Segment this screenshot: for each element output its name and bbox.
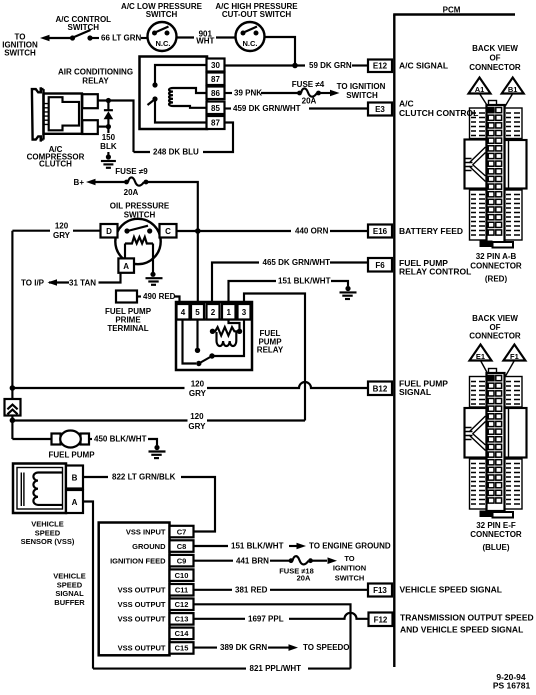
svg-text:OF: OF [489,53,500,62]
relay K2 switch blade [196,353,215,366]
vehicle speed signal buffer U1 box [99,523,170,656]
A/C compressor clutch terminal (top) [82,94,98,108]
svg-text:86: 86 [211,89,220,98]
svg-text:465 DK GRN/WHT: 465 DK GRN/WHT [263,258,331,267]
svg-text:150: 150 [102,133,116,142]
buffer pin C10 [170,569,194,581]
svg-text:VSS OUTPUT: VSS OUTPUT [118,600,166,609]
PCM pin E16 [368,225,392,238]
svg-text:CLUTCH: CLUTCH [39,160,72,169]
connector J2 32 PIN E-F body [465,369,527,512]
connector J2 32 PIN E-F header labels [469,314,521,341]
relay K2 pin 3 [238,304,251,320]
connector J1 32 PIN A-B body [465,101,527,244]
relay K1 terminal 87 [207,73,225,86]
svg-text:32 PIN A-B: 32 PIN A-B [476,252,517,261]
switch S2 A/C LOW PRESSURE SWITCH [121,2,203,51]
wire B+ feed with left arrow [86,179,125,186]
A/C compressor clutch body [44,94,82,134]
svg-text:C8: C8 [177,542,187,551]
wire fuel pump relay pin 3 down to 120 GRY [244,294,305,421]
left rail wire below connector [11,416,13,440]
wire 39 PNK from terminal 86 [225,89,298,98]
svg-text:WHT: WHT [196,37,214,46]
svg-text:BATTERY FEED: BATTERY FEED [399,226,463,236]
svg-text:A: A [72,498,78,507]
connector J2 label 32 PIN E-F CONNECTOR (BLUE) [470,521,522,552]
connector J1 pin B1 callout triangle [502,78,524,110]
svg-text:120: 120 [190,412,204,421]
svg-text:E3: E3 [375,105,385,114]
svg-text:3: 3 [242,308,247,317]
svg-text:248 DK BLU: 248 DK BLU [153,148,199,157]
svg-text:822 LT GRN/BLK: 822 LT GRN/BLK [112,473,176,482]
wire 150 BLK to ground [100,127,117,155]
svg-text:C7: C7 [177,527,187,536]
svg-text:381 RED: 381 RED [235,585,268,594]
wire 120 GRY fuel pump feed to relay pin 3 [12,412,305,431]
relay K1 terminal 86 [207,87,225,100]
svg-text:20A: 20A [302,97,317,106]
svg-text:459 DK GRN/WHT: 459 DK GRN/WHT [233,104,301,113]
wire 66 LT GRN [92,34,148,43]
svg-text:TO I/P: TO I/P [21,278,45,287]
svg-text:N.C.: N.C. [156,39,171,48]
node junction dot 59 DK GRN [292,63,298,69]
vehicle speed sensor terminal A [66,490,83,513]
net label TRANSMISSION OUTPUT SPEED AND VEHICLE SPEED SIGNAL [400,612,534,634]
connector J1 32 PIN A-B header labels [469,44,521,72]
svg-text:C: C [165,227,171,236]
wire fuse 9 to battery feed node [148,182,198,231]
relay K1 coil [169,88,207,108]
label A/C COMPRESSOR CLUTCH [27,145,85,169]
svg-text:A/C SIGNAL: A/C SIGNAL [399,60,448,70]
wire 120 GRY to PCM B12 (with hop) [12,380,368,399]
svg-text:BUFFER: BUFFER [54,598,85,607]
connector J1 pin A1 callout triangle [469,78,491,110]
net label FUEL PUMP SIGNAL [399,379,448,398]
oil pressure switch contacts [124,226,152,234]
relay K2 pin4 internal wire [183,320,197,364]
oil pressure switch S4 body [115,219,160,264]
node junction diode bottom [106,124,111,129]
svg-text:E12: E12 [373,61,388,70]
svg-text:OIL PRESSURE: OIL PRESSURE [110,201,170,210]
svg-text:A1: A1 [475,85,485,94]
svg-text:C10: C10 [175,571,189,580]
wire 381 RED from C11 to F13 [194,585,369,594]
relay K1 outline [140,57,208,130]
buffer pin C12 [118,599,194,611]
diode D1 [104,101,114,125]
svg-text:441 BRN: 441 BRN [236,556,269,565]
svg-text:F13: F13 [373,586,387,595]
svg-text:(RED): (RED) [485,275,508,284]
node junction battery feed [195,228,201,234]
wire clutch bottom terminal to diode [98,126,109,128]
fuse F4 FUSE #4 20A [292,80,325,106]
svg-text:TERMINAL: TERMINAL [107,324,148,333]
connector J2 foot [480,511,514,518]
A/C compressor clutch M1 pulley [32,87,44,141]
wire 31 TAN from terminal A [48,273,121,288]
svg-text:C15: C15 [175,644,189,653]
label VEHICLE SPEED SENSOR (VSS) [21,520,75,546]
svg-text:F1: F1 [510,352,519,361]
svg-text:CONNECTOR: CONNECTOR [469,63,521,72]
node TO IGNITION SWITCH (top left) [2,32,38,57]
relay K2 pin1 internal wire [229,320,240,330]
svg-text:B+: B+ [74,178,85,187]
svg-text:E16: E16 [373,227,388,236]
svg-text:VEHICLE SPEED SIGNAL: VEHICLE SPEED SIGNAL [400,584,503,594]
ground G3 (151 BLK/WHT) [340,286,357,299]
svg-text:450 BLK/WHT: 450 BLK/WHT [94,435,147,444]
svg-text:2: 2 [211,308,216,317]
svg-text:SWITCH: SWITCH [146,10,178,19]
svg-text:SIGNAL: SIGNAL [55,589,84,598]
relay K2 pin 2 [207,304,220,320]
svg-text:VSS INPUT: VSS INPUT [126,527,166,536]
net label A/C CLUTCH CONTROL [399,98,478,118]
wire 1697 PPL from C13 to F12 (with hop) [194,613,369,624]
svg-text:39 PNK: 39 PNK [234,89,262,98]
svg-text:E1: E1 [476,352,485,361]
svg-text:SENSOR (VSS): SENSOR (VSS) [21,537,75,546]
svg-text:151 BLK/WHT: 151 BLK/WHT [231,542,284,551]
svg-text:BACK VIEW: BACK VIEW [472,44,518,53]
svg-text:SPEED: SPEED [57,580,83,589]
PCM pin B12 [368,382,392,396]
svg-text:AND VEHICLE SPEED SIGNAL: AND VEHICLE SPEED SIGNAL [400,624,523,634]
wire 389 DK GRN from C15 to speedo [194,643,350,652]
svg-text:CLUTCH CONTROL: CLUTCH CONTROL [399,108,478,118]
svg-text:PS 16781: PS 16781 [493,681,531,691]
fuel pump M2 [12,431,89,448]
fuse F18 FUSE #18 20A [279,556,314,582]
wire to ignition switch (fuse 4) with right arrow [320,82,386,100]
svg-text:RELAY: RELAY [257,346,284,355]
svg-text:20A: 20A [124,188,139,197]
wire to ignition switch (fuse 18) with right arrow [312,554,366,582]
PCM pin E3 [368,103,392,116]
wire 821 PPL/WHT [93,664,351,673]
svg-text:120: 120 [191,380,205,389]
wire 459 DK GRN/WHT from terminal 85 to E3 [225,104,369,113]
relay K1 terminal 30 [207,59,225,72]
relay K2 pin 5 [191,304,204,320]
fuel pump prime terminal TB1 [116,291,137,303]
svg-text:TO IGNITION: TO IGNITION [337,82,386,91]
svg-text:VEHICLE: VEHICLE [53,572,86,581]
buffer pin C8 [132,540,193,552]
net label FUEL PUMP RELAY CONTROL [399,258,471,276]
svg-text:F12: F12 [374,615,388,624]
buffer pin C13 [118,613,194,625]
svg-text:85: 85 [211,104,220,113]
svg-text:GRY: GRY [53,231,71,240]
svg-text:TO: TO [344,554,354,563]
wire 248 DK BLU from clutch to relay terminal 87a [134,123,234,157]
relay K1 AIR CONDITIONING RELAY label [58,68,133,86]
ground G1 (150 BLK) [101,154,116,167]
svg-text:5: 5 [195,308,200,317]
relay K1 terminal 85 [207,102,225,115]
oil pressure switch S4 label [110,201,170,219]
wire 151 BLK/WHT from C8 to engine ground [194,542,391,551]
wire 151 BLK/WHT from relay pin 1 to ground [229,277,349,305]
svg-text:66 LT GRN: 66 LT GRN [101,34,142,43]
svg-text:SWITCH: SWITCH [335,573,365,582]
svg-text:B1: B1 [508,85,518,94]
switch S1 A/C CONTROL SWITCH [56,15,112,41]
svg-text:4: 4 [181,308,186,317]
svg-text:SWITCH: SWITCH [4,48,36,57]
wire 465 DK GRN/WHT from relay pin 2 to F6 [212,258,368,304]
svg-text:32 PIN E-F: 32 PIN E-F [476,521,516,530]
wire 901 WHT [177,29,236,45]
svg-text:440 ORN: 440 ORN [295,227,329,236]
oil pressure switch terminal C [160,224,177,238]
svg-text:CUT-OUT SWITCH: CUT-OUT SWITCH [222,10,292,19]
svg-text:SWITCH: SWITCH [68,23,100,32]
svg-text:821 PPL/WHT: 821 PPL/WHT [250,664,302,673]
wire from high pressure switch down to 59 DK GRN node [265,37,296,66]
wire to ignition switch with left arrow [40,35,71,42]
svg-text:VSS OUTPUT: VSS OUTPUT [118,615,166,624]
svg-text:87: 87 [211,75,220,84]
relay K1 internal switch contacts [148,65,207,123]
relay K2 pin 4 [177,304,190,320]
svg-text:CONNECTOR: CONNECTOR [469,332,521,341]
svg-text:SWITCH: SWITCH [346,91,378,100]
svg-text:A: A [123,262,129,271]
svg-text:RELAY CONTROL: RELAY CONTROL [399,266,471,276]
wire 440 ORN from terminal C to E16 [177,227,369,236]
buffer pin C9 [110,555,193,567]
label FUEL PUMP RELAY [257,329,284,355]
svg-text:FUSE ≠4: FUSE ≠4 [292,80,325,89]
svg-text:CONNECTOR: CONNECTOR [470,530,522,539]
relay K2 internal resistor [210,327,242,335]
connector J1 foot [480,241,514,248]
svg-text:GRY: GRY [189,389,207,398]
wire clutch top terminal to 248 DK BLU [98,101,134,153]
PCM pin F6 [368,258,392,272]
svg-text:1: 1 [226,308,231,317]
svg-text:FUSE ≠9: FUSE ≠9 [115,167,148,176]
svg-text:SPEED: SPEED [35,528,61,537]
connector J2 pin F1 callout triangle [503,345,525,378]
svg-text:A/C: A/C [399,98,414,108]
PCM pin E12 [368,60,392,73]
node junction fuel pump feed [10,418,16,424]
svg-text:RELAY: RELAY [82,77,109,86]
connector J1 label 32 PIN A-B CONNECTOR (RED) [470,252,522,284]
A/C compressor clutch coil bobbin [44,97,79,130]
svg-text:B: B [72,473,78,482]
buffer pin C15 [118,642,194,654]
wire battery feed node to fuel pump relay pin 5 [197,231,199,304]
svg-text:GROUND: GROUND [132,542,166,551]
svg-text:C14: C14 [175,629,190,638]
svg-text:389 DK GRN: 389 DK GRN [220,643,267,652]
svg-text:BLK: BLK [100,142,117,151]
svg-text:BACK VIEW: BACK VIEW [472,314,518,323]
svg-text:490 RED: 490 RED [143,292,176,301]
switch S3 A/C HIGH PRESSURE CUT-OUT SWITCH [215,2,298,51]
oil pressure switch terminal D [101,224,118,238]
svg-text:AIR CONDITIONING: AIR CONDITIONING [58,68,133,77]
oil pressure switch terminal A [118,258,134,272]
svg-text:FUEL PUMP: FUEL PUMP [48,451,95,460]
svg-text:GRY: GRY [188,422,206,431]
svg-text:N.C.: N.C. [243,39,258,48]
wire 450 BLK/WHT to ground [89,435,157,446]
relay K1 terminal 87a [207,116,225,129]
svg-text:TRANSMISSION OUTPUT SPEED: TRANSMISSION OUTPUT SPEED [400,612,534,622]
relay K2 pin5 internal wire [195,320,200,353]
svg-text:D: D [106,227,112,236]
node junction fuel pump signal tap [10,385,16,391]
wire C12 to 821 PPL/WHT junction [194,604,351,668]
wire 822 LT GRN/BLK from VSS B to buffer C7 [83,473,215,532]
relay K2 FUEL PUMP RELAY outline [176,302,252,370]
svg-text:151 BLK/WHT: 151 BLK/WHT [278,277,331,286]
svg-text:IGNITION: IGNITION [333,564,366,573]
connector J1 pins [488,108,501,236]
svg-text:TO ENGINE GROUND: TO ENGINE GROUND [309,542,391,551]
vehicle speed sensor terminal B [66,466,83,489]
wire 490 RED to relay pin 4 [137,292,180,304]
buffer pin C7 [126,526,194,538]
vehicle speed sensor B1 body [13,464,66,514]
PCM boundary line [393,15,515,668]
svg-text:SIGNAL: SIGNAL [399,387,431,397]
wire 120 GRY from terminal D to left rail [12,222,100,241]
A/C compressor clutch terminal (bottom) [82,120,98,134]
svg-text:VSS OUTPUT: VSS OUTPUT [118,644,166,653]
svg-text:C9: C9 [177,556,187,565]
fuse F9 FUSE #9 20A [115,167,148,197]
label VEHICLE SPEED SIGNAL BUFFER [53,572,86,607]
wire VSS A to 821 PPL/WHT [83,502,93,669]
connector J2 pins [488,376,501,504]
connector J2 pin E1 callout triangle [470,345,492,378]
left rail wire (120 GRY vertical) [11,231,13,399]
svg-text:C11: C11 [175,586,188,595]
relay K2 pin 1 [222,304,236,320]
ground G4 (450 BLK/WHT) [149,445,166,458]
buffer pin C14 [170,628,194,640]
svg-text:IGNITION FEED: IGNITION FEED [110,556,166,565]
node junction diode top [106,98,111,103]
svg-text:30: 30 [211,61,220,70]
wire 59 DK GRN from relay pin 30 to PCM E12 [225,61,369,70]
svg-text:59 DK GRN: 59 DK GRN [309,61,352,70]
relay K2 internal coil [217,332,237,346]
svg-text:VSS OUTPUT: VSS OUTPUT [118,586,166,595]
oil pressure switch internal resistor [125,237,153,272]
svg-text:31 TAN: 31 TAN [69,278,96,287]
buffer pin C11 [118,584,194,596]
svg-text:20A: 20A [297,574,311,583]
svg-text:1697 PPL: 1697 PPL [248,614,284,623]
svg-text:B12: B12 [373,384,388,393]
svg-text:C12: C12 [175,600,189,609]
wire 441 BRN from C9 [194,556,290,565]
svg-text:120: 120 [55,222,69,231]
svg-text:C13: C13 [175,615,189,624]
svg-text:CONNECTOR: CONNECTOR [470,262,522,271]
inline connector C100 (double chevron) [5,399,21,416]
svg-text:F6: F6 [375,261,385,270]
PCM pin F13 [368,584,392,597]
ground G2 (oil pressure switch) [146,272,163,285]
svg-text:TO SPEEDO: TO SPEEDO [303,643,350,652]
relay K2 pin3 internal wire [212,320,244,357]
PCM pin F12 [369,613,393,627]
svg-text:(BLUE): (BLUE) [482,543,509,552]
svg-text:VEHICLE: VEHICLE [31,520,64,529]
svg-text:PCM: PCM [443,6,461,15]
label FUEL PUMP PRIME TERMINAL [105,307,152,333]
svg-text:87: 87 [211,119,220,128]
